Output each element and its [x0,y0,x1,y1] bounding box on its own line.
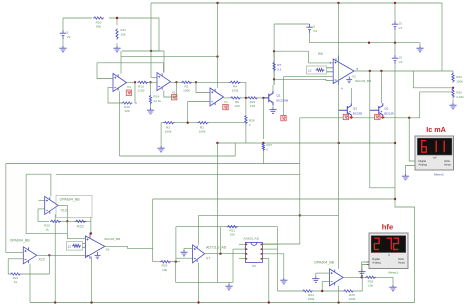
svg-text:R35: R35 [456,91,462,95]
wire X1 out [224,97,231,99]
wire long row y174 [56,173,300,175]
wire to R14 [150,82,152,94]
ground R11 [113,46,120,52]
svg-text:X12: X12 [39,258,45,262]
wire pin1R to column [263,243,278,245]
wire inner rect down [26,174,67,233]
wire to X4 + input [97,63,113,79]
resistor R28 [245,115,247,125]
svg-text:R23: R23 [77,224,84,228]
wire to X6 + input [67,221,85,238]
junction meter2 tap [408,117,410,119]
junction R3/R2 [187,122,189,124]
junction X7 - node [175,261,177,263]
junction top rail C [394,2,396,4]
svg-text:0.1: 0.1 [277,68,282,72]
wire X8 - input [322,281,329,283]
wire drop to X4 V+ [120,51,122,74]
svg-text:12: 12 [68,244,72,248]
resistor R29 [160,261,171,263]
svg-text:Meter2: Meter2 [434,173,444,177]
svg-text:Q2: Q2 [384,107,388,111]
wire to R34 [452,71,454,73]
wire rail right drop [441,3,443,71]
resistor R11 [116,29,118,40]
resistor R20 [50,220,61,222]
wire R27 to L2 [262,151,264,164]
wire column 277 [277,227,279,291]
op-amp X4 [113,74,127,92]
wire to meter2 term1 [409,118,415,161]
op-amp X12 [23,247,37,264]
wire V4+ row [274,23,310,25]
wire drop to X5 V+ [163,51,165,73]
wire long row y199 [153,198,395,200]
wire X6 V+ column [90,217,92,233]
junction R1/X1 [195,81,197,83]
wire R10 junction to X5 node [109,18,159,51]
junction R6/R22/R28 [245,97,247,99]
wire X2 output row [354,70,453,72]
wire column 217 down [216,143,218,282]
wire V2- column down [395,64,415,207]
junction R27 top [262,142,264,144]
wire R3 to R2 [175,122,199,124]
wire down to probe [283,77,285,116]
ground meter1 [358,270,365,276]
wire R13 to X5 in [148,81,157,83]
junction X6 V+ [90,232,92,234]
op-amp X5 [157,73,171,91]
wire X7 + to ground [183,248,185,250]
wire R4 row left [196,81,231,83]
svg-text:Analog: Analog [419,163,428,167]
resistor R23 [75,220,86,222]
wire X6 out step [105,246,153,248]
wire X8 out to meter1 [362,262,367,277]
wire outer rect to X12 + [6,164,23,253]
probe U3 [281,115,286,120]
svg-text:12: 12 [308,69,312,73]
ground X6 ref [95,252,101,259]
wire R14 to ground [150,105,152,109]
wire Q3 collector [350,88,352,103]
meter1 digits 2.72 [374,238,398,249]
wire to ground [315,273,317,276]
wire X7 V- to rail [198,263,200,303]
wire X12 - in [8,258,23,260]
svg-text:R28: R28 [249,119,255,123]
wire X4 out [127,81,136,83]
junction rail X8 [337,301,339,303]
junction X4 out [134,81,136,83]
wire meter1 term2 [362,265,367,270]
wire R35 to ground [452,99,454,104]
svg-text:1k: 1k [14,280,18,284]
ground AD633 [225,284,232,290]
svg-text:100: 100 [234,104,239,108]
resistor R4 [230,81,241,83]
wire R28 to row [245,125,247,144]
svg-text:OPA604_BB: OPA604_BB [60,198,81,202]
gain resistor R23 box [67,242,83,251]
op-amp X2 [333,59,354,84]
svg-text:INA103_BB: INA103_BB [355,79,371,83]
resistor R27 [262,143,264,151]
resistor R25 [343,290,354,292]
wire X4 feedback down [135,82,137,103]
wire bottom rail [30,302,415,304]
svg-text:5: 5 [67,30,69,34]
wire pin2R to column [263,248,278,250]
junction R7 top [273,50,275,52]
resistor R24 [302,290,313,292]
wire X5 feedback loop [164,82,177,97]
junction mid row [216,142,218,144]
wire pin1R row to column [263,243,300,245]
resistor R1 [181,81,192,83]
wire rail drop to node [150,3,152,51]
transistor Q2 [370,103,383,117]
svg-text:AD633_AD: AD633_AD [244,236,260,240]
wire supply row to X1 V+ [121,56,218,58]
wire pin4R to rail [263,259,269,303]
ground meter2 [402,174,409,180]
resistor R13 [137,81,148,83]
ground 0V [416,46,423,52]
wire Q1 base column [262,98,264,139]
junction X7 out [219,253,221,255]
junction X13 fb [66,220,68,222]
wire L1 row [120,143,236,156]
resistor R21 [10,273,21,275]
wire R7 sense top [274,50,308,52]
svg-text:Ic mA: Ic mA [426,125,446,134]
junction rail X6 [90,301,92,303]
svg-text:BD139: BD139 [384,111,394,115]
junction mid column [299,214,301,216]
wire row y62 [97,62,164,64]
wire pin1L stub [239,243,245,245]
svg-text:Meter1: Meter1 [389,270,399,274]
svg-text:hfe: hfe [382,222,393,231]
wire R7 top stub [273,51,275,56]
wire Q2 collector column [380,71,382,103]
junction top rail B [337,2,339,4]
junction top rail A [216,2,218,4]
wire to X1 + input [196,82,210,92]
svg-text:100: 100 [250,104,255,108]
wire X2 out down to row188 [370,71,395,188]
wire R20 to node [61,220,67,222]
wire column 338 full [338,55,340,270]
resistor R19 [122,102,133,104]
wire X13 + input stub [39,199,45,201]
wire X8 V- to rail [338,286,340,303]
resistor R21 [227,226,238,228]
wire R2 to R28 column [209,122,246,124]
junction V2 row143 [394,142,396,144]
wire meter2 term2 to ground [406,166,416,175]
wire pin2L down [232,249,234,282]
voltage source V3 [60,30,66,39]
svg-text:Digital: Digital [372,257,380,261]
voltage source V2 [392,55,398,64]
wire V4 to R7 [273,24,275,51]
probe U9 at X5 [172,95,177,100]
svg-text:Q3: Q3 [353,107,357,111]
wire X6 V- column [91,257,93,303]
svg-text:X5: X5 [172,91,176,95]
svg-text:1100: 1100 [138,89,145,93]
svg-text:100k: 100k [183,89,190,93]
junction R7 bottom [273,78,275,80]
ground X8 [312,277,319,283]
svg-text:V3: V3 [67,35,71,39]
wire junction to R11 [116,18,118,25]
svg-text:100k: 100k [349,297,356,301]
svg-text:Volts: Volts [398,257,404,261]
svg-text:100k: 100k [199,129,206,133]
ground mid [158,146,165,152]
ground V3 [59,46,66,52]
ground pin3R [280,278,287,284]
probe U8 at X4 [126,90,131,95]
wire X7 + input [184,247,193,249]
op-amp X1 [210,88,224,106]
meter2 digits 6.11 [422,141,445,153]
resistor R2 [198,122,209,124]
transistor Q3 [339,103,352,117]
transistor Q1 [263,91,273,105]
junction rail AD633 [268,301,270,303]
wire X7 fb up [220,227,222,254]
junction X12 out [48,254,50,256]
svg-text:15: 15 [399,21,403,25]
wire out row to divider tap [413,71,453,88]
ground R26 [389,285,396,291]
junction R13/R14 [149,81,151,83]
svg-text:2.04k: 2.04k [456,95,464,99]
svg-text:U6: U6 [252,264,256,268]
wire L2 long row [6,163,300,165]
svg-text:INA103_BB: INA103_BB [104,237,120,241]
resistor R7 [273,62,275,72]
svg-text:100k: 100k [308,297,315,301]
svg-text:X4: X4 [127,85,131,89]
wire ground stub [228,282,230,284]
svg-text:10k: 10k [162,268,167,272]
svg-text:V1: V1 [399,26,403,30]
meter1 terminals [367,262,370,265]
wire X5 out [171,81,177,83]
wire X13 V- column [54,214,56,302]
wire right column to rail [414,207,416,303]
resistor R10 [93,17,104,19]
svg-text:mV: mV [433,157,437,160]
wire R26 to ground [376,277,393,285]
svg-text:X1: X1 [224,100,228,104]
wire column 152.7 [152,199,154,262]
probe U2 at X1 [223,104,228,109]
wire X7 - node column [175,227,177,262]
junction 0V A [368,42,370,44]
ground R35 [449,103,456,109]
wire X8 + input [316,272,330,274]
wire ground jog row [176,281,233,283]
svg-text:5: 5 [313,24,315,28]
junction V2 row199 [394,198,396,200]
ground Q1 [269,108,276,114]
ground X7 [180,250,187,256]
probe U5 at Q2 [375,114,380,119]
multiplier U6 AD633 [245,242,262,262]
wire rail to X2 V+ [338,3,340,55]
wire inner rect to X13 V+ [26,174,51,196]
wire X12 out to X6 [49,254,85,256]
wire X1 - input [188,101,210,103]
wire to X7 - input [176,257,193,259]
wire R6 to R22 [241,97,248,99]
gain resistor R8 box [307,66,327,74]
wire X13 fb loop [38,209,49,221]
wire R22 to Q1 base [258,97,269,99]
resistor R34 [452,73,454,83]
wire down to R28 [245,98,247,114]
wire X12 V- to rail [29,264,31,303]
svg-text:10k: 10k [368,283,373,287]
wire V3 to ground [62,39,64,46]
wire node down [175,262,177,283]
svg-text:R34: R34 [456,75,462,79]
wire pin3R to ground [263,254,284,278]
svg-text:Amps: Amps [444,163,452,167]
wire pin4L stub [239,258,245,260]
svg-text:10k: 10k [121,33,126,37]
wire X12 fb [8,259,10,274]
junction X8 out [361,276,363,278]
svg-text:15: 15 [399,55,403,59]
wire X13 - in [38,208,45,210]
wire rail drop to X1 V+ [217,3,219,88]
wire X7 V+ column [198,215,200,245]
junction X2 out A [369,70,371,72]
wire X1 - to R3/R2 node [187,102,189,123]
probe U4 at Q3 [343,114,348,119]
wire V1 to V2 [394,30,396,55]
wire R25 feedback up [354,277,362,291]
junction supply row [216,55,218,57]
wire R4 to output node [241,82,246,98]
junction R34/R35 [452,87,454,89]
wire emitter row to R35 top [300,92,452,118]
svg-text:Analog: Analog [372,260,381,264]
svg-text:X6: X6 [106,248,110,252]
wire R24 to R25 [313,290,343,292]
wire X4 V- column [119,91,121,156]
wire X2 pin to sense [284,76,334,78]
wire R23 row [67,220,91,222]
svg-text:OPA604_BB: OPA604_BB [314,260,335,264]
wire top +15V rail [151,2,442,4]
svg-text:Digital: Digital [419,159,427,163]
wire mid row y143 [217,142,395,144]
wire X12 out [37,254,50,256]
svg-text:22.1k: 22.1k [154,99,162,103]
wire to X5 top [163,63,165,73]
ground R14 [147,108,154,114]
svg-text:BC239B: BC239B [277,98,289,102]
svg-text:V4: V4 [313,29,317,33]
wire R29 to X7 [171,261,180,263]
op-amp X8 [330,269,344,286]
wire R24 row left [278,290,303,292]
label box X13 [56,195,92,217]
wire row y215 [199,214,339,216]
junction node X5+ [150,50,152,52]
wire R3 left down [160,123,162,146]
svg-text:90k: 90k [96,25,101,29]
svg-text:X2: X2 [352,75,356,79]
junction R10/R11 [116,17,118,19]
wire R11 to ground [116,43,118,46]
wire R7 bottom to X2 pin 2 [274,79,333,80]
junction rail X13 [54,301,56,303]
svg-text:AD711U_AD: AD711U_AD [206,246,227,250]
wire Q1 collector up [272,85,274,91]
junction R24/R25 [321,290,323,292]
voltage source V1 [392,21,398,30]
resistor R6 [230,97,241,99]
resistor R3 [164,122,175,124]
resistor R22 [247,97,258,99]
svg-text:OPA604_BB: OPA604_BB [10,238,31,242]
svg-text:R14: R14 [154,95,160,99]
wire R1 out [192,81,196,83]
op-amp X6 [85,236,104,258]
wire R3 left stub [161,122,163,124]
junction 0V B [394,42,396,44]
svg-text:0: 0 [249,123,251,127]
voltage source V4 [306,24,312,33]
wire Q1 emitter to ground [272,105,274,107]
wire V4- to 0V rail [310,33,420,43]
wire X13 out [58,205,68,221]
wire R7 column [273,51,275,85]
svg-text:100k: 100k [456,80,463,84]
ground X2 ref [346,77,352,83]
wire X8 out [343,276,366,278]
probe arrow Q3 [350,116,353,119]
wire V3 to R10 [63,18,92,30]
resistor R26 [365,276,376,278]
wire pin2L [233,248,245,250]
svg-text:0: 0 [266,148,268,152]
svg-text:X13: X13 [61,209,67,213]
wire node to X5 + input [151,51,157,77]
wire R21 to out [21,255,49,274]
svg-text:R27: R27 [266,143,272,147]
wire X7 out to AD633 [205,253,246,255]
junction X5 out [175,81,177,83]
svg-text:V2: V2 [399,60,403,64]
svg-text:R7: R7 [277,63,281,67]
wire column 299.8 [299,118,301,244]
wire R21b row [176,226,278,228]
svg-text:100: 100 [124,109,129,113]
probe arrow Q2 [381,116,384,119]
resistor R14 [149,95,151,105]
